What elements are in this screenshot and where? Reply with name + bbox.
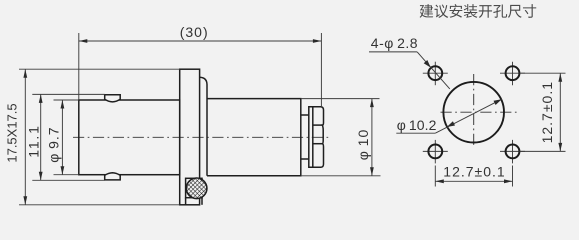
svg-text:φ 10.2: φ 10.2 [397, 117, 437, 133]
svg-text:17.5X17.5: 17.5X17.5 [5, 103, 20, 162]
svg-text:φ 10: φ 10 [355, 129, 371, 160]
svg-text:4-φ 2.8: 4-φ 2.8 [371, 35, 418, 51]
svg-text:(30): (30) [180, 24, 209, 40]
svg-text:φ 9.7: φ 9.7 [46, 126, 62, 162]
svg-text:12.7±0.1: 12.7±0.1 [443, 164, 505, 180]
svg-text:11.1: 11.1 [25, 124, 41, 157]
svg-text:12.7±0.1: 12.7±0.1 [539, 81, 555, 143]
